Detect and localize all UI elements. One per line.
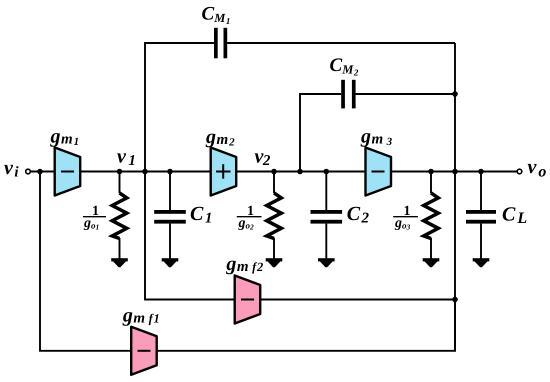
ground under C1 bbox=[162, 258, 179, 267]
terminal vo bbox=[517, 169, 522, 174]
op-amp gm3 bbox=[366, 148, 392, 196]
wire gm2 output to gm3 input bbox=[236, 171, 366, 173]
node C1 junction bbox=[167, 169, 173, 175]
wire CM1 to vo rail bbox=[227, 42, 455, 44]
wire gm1 output to gm2 input bbox=[80, 171, 211, 173]
wire gmf2 output to vo rail bbox=[261, 299, 455, 301]
node v1 bbox=[117, 169, 123, 175]
ground under 1/go2 bbox=[266, 258, 283, 267]
wire input vi to gm1 bbox=[31, 171, 55, 173]
resistor 1/go2 bbox=[267, 172, 282, 259]
wire v1 node up to CM1 bbox=[145, 43, 214, 172]
node vi junction bbox=[37, 169, 43, 175]
node v2 bbox=[271, 169, 277, 175]
wire gm3 output to vo bbox=[391, 171, 517, 173]
capacitor C1 bbox=[154, 172, 186, 259]
capacitor CL bbox=[466, 172, 496, 259]
node vo rail main junction bbox=[452, 169, 458, 175]
node CL junction bbox=[478, 169, 484, 175]
wire vi node down to gmf1 input bbox=[40, 172, 131, 351]
wire v1 node down to gmf2 input bbox=[145, 172, 235, 300]
op-amp gm1 bbox=[55, 148, 80, 196]
capacitor C2 bbox=[311, 172, 343, 259]
wire gmf1 output to vo rail bbox=[157, 300, 455, 351]
wire CM2 to vo rail bbox=[356, 93, 455, 95]
op-amp gm2 bbox=[211, 148, 237, 196]
ground under 1/go1 bbox=[111, 258, 128, 267]
node gmf2 output junction bbox=[452, 297, 458, 303]
ground under C2 bbox=[318, 258, 335, 267]
node v1-CM1 junction bbox=[142, 169, 148, 175]
label 1/go2 fraction bbox=[237, 204, 262, 232]
wire v2 node up to CM2 bbox=[300, 94, 341, 172]
node v2-CM2 junction bbox=[297, 169, 303, 175]
wire vo rail vertical bbox=[454, 43, 456, 352]
ground under 1/go3 bbox=[423, 258, 440, 267]
capacitor CM2 bbox=[341, 80, 355, 109]
node 1/go3 junction bbox=[428, 169, 434, 175]
op-amp gmf1 bbox=[131, 327, 157, 375]
label 1/go1 fraction bbox=[83, 204, 106, 232]
capacitor CM1 bbox=[214, 28, 227, 59]
label 1/go3 fraction bbox=[393, 204, 418, 232]
op-amp gmf2 bbox=[235, 276, 261, 324]
node CM2 right junction bbox=[452, 91, 458, 97]
node C2 junction bbox=[324, 169, 330, 175]
resistor 1/go3 bbox=[424, 172, 439, 259]
ground under CL bbox=[473, 258, 490, 267]
terminal vi bbox=[26, 169, 31, 174]
resistor 1/go1 bbox=[112, 172, 127, 259]
